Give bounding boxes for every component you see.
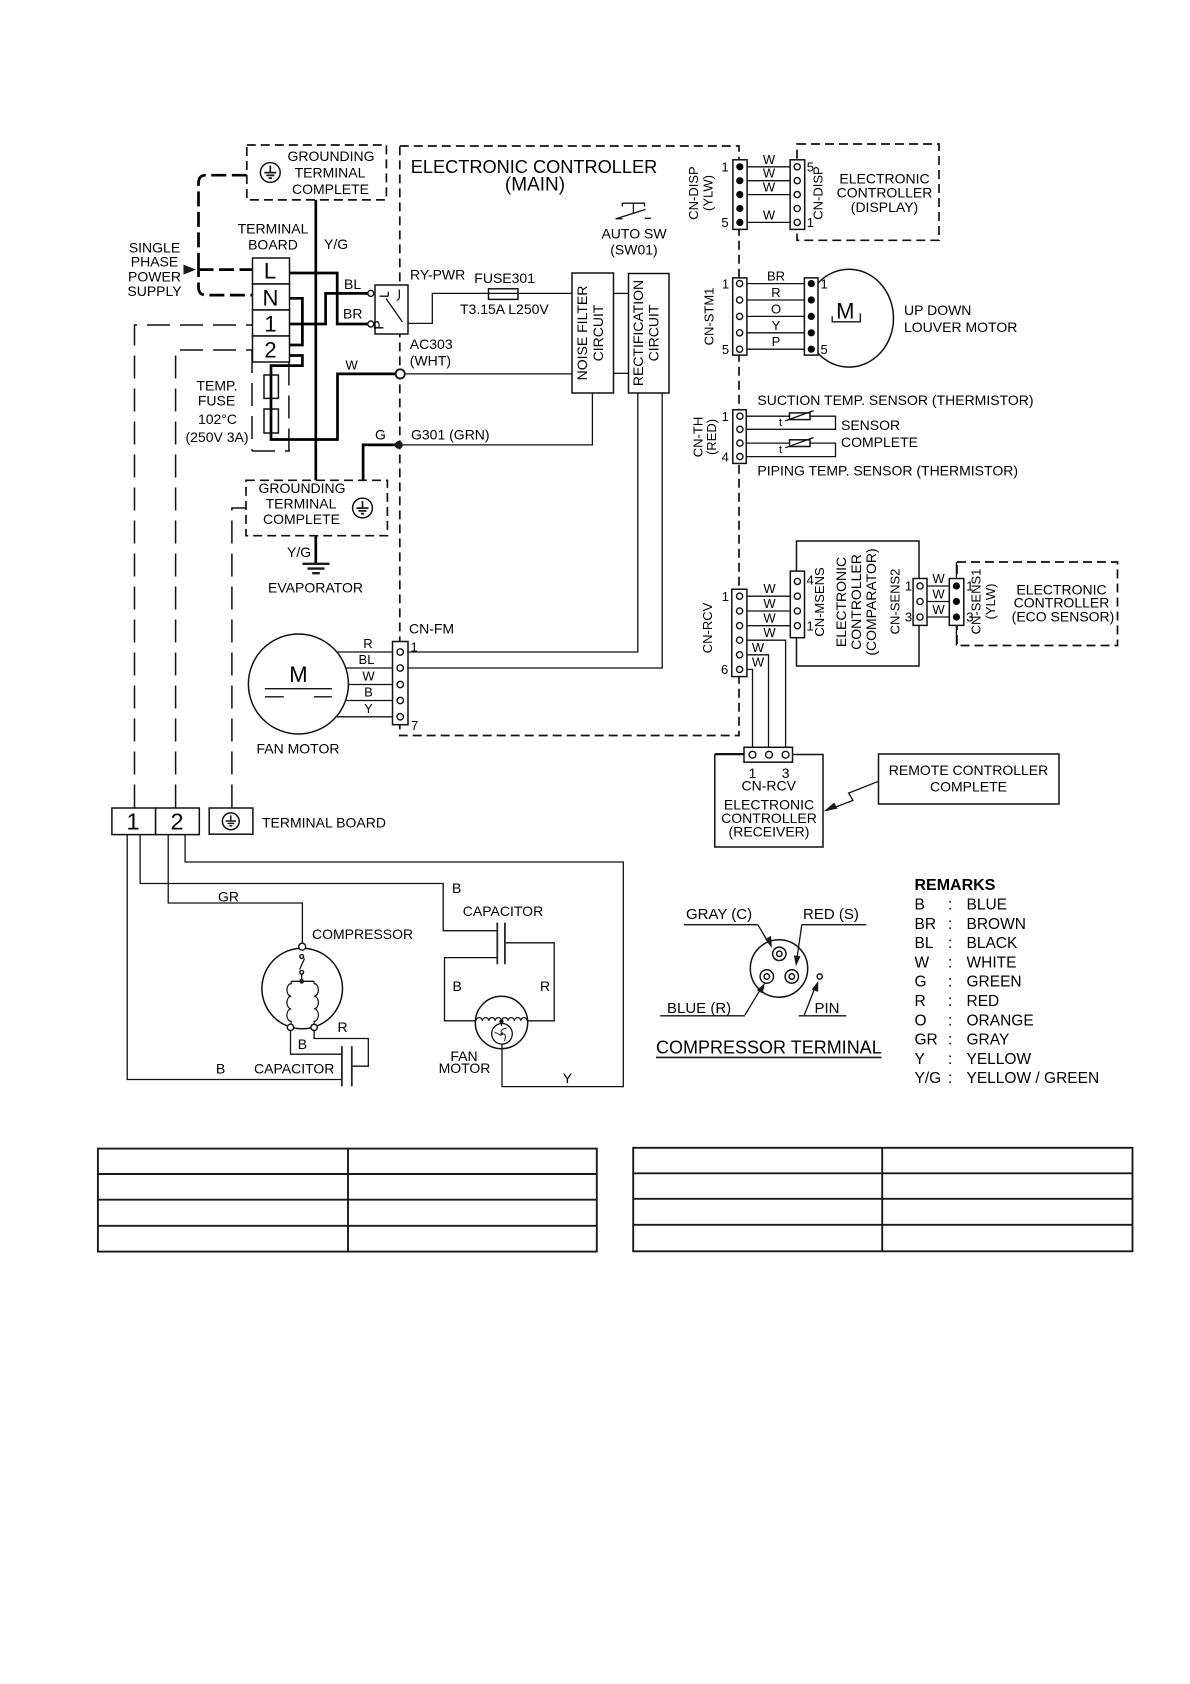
svg-text:GR: GR xyxy=(915,1032,938,1049)
svg-text:ORANGE: ORANGE xyxy=(967,1012,1034,1029)
svg-text:1: 1 xyxy=(264,312,276,337)
svg-text::: : xyxy=(948,916,952,933)
svg-text:(SW01): (SW01) xyxy=(610,242,657,258)
svg-text:1: 1 xyxy=(722,276,729,291)
svg-text:W: W xyxy=(763,166,776,181)
svg-text:1: 1 xyxy=(722,409,729,424)
winding: compressor coils xyxy=(291,980,314,982)
svg-text:REMARKS: REMARKS xyxy=(915,877,996,894)
svg-text:FUSE301: FUSE301 xyxy=(474,270,535,286)
capacitor: fan motor capacitor plates xyxy=(497,923,505,965)
terminal: compressor top terminal xyxy=(299,943,306,950)
svg-text:UP DOWN: UP DOWN xyxy=(904,302,971,318)
wire: fan motor to CN-FM row5 Y xyxy=(337,716,397,718)
wire: compressor R wrap to capacitor xyxy=(314,1031,368,1067)
svg-text:CIRCUIT: CIRCUIT xyxy=(590,304,606,361)
box: grounding terminal complete top dashed xyxy=(247,145,387,200)
svg-text:W: W xyxy=(915,954,930,971)
wire: B lower board1 to compressor capacitor xyxy=(127,835,342,1080)
arrow: blue to R xyxy=(745,990,760,1015)
svg-text:BROWN: BROWN xyxy=(967,916,1026,933)
svg-text:RY-PWR: RY-PWR xyxy=(410,267,465,283)
terminal board: cell L xyxy=(253,258,290,284)
svg-text:t: t xyxy=(779,444,782,456)
svg-text:CN-DISP: CN-DISP xyxy=(686,166,701,219)
svg-text:W: W xyxy=(932,571,945,586)
svg-text:1: 1 xyxy=(126,809,139,835)
terminal board: cell N xyxy=(253,284,290,310)
connector: CN-DISP display side xyxy=(790,160,805,230)
svg-text:N: N xyxy=(263,286,279,311)
svg-text:NOISE FILTER: NOISE FILTER xyxy=(574,286,590,381)
svg-text:W: W xyxy=(763,152,776,167)
svg-text:6: 6 xyxy=(721,662,728,677)
svg-text:BOARD: BOARD xyxy=(248,236,298,252)
svg-text:PIPING TEMP. SENSOR (THERMISTO: PIPING TEMP. SENSOR (THERMISTOR) xyxy=(757,463,1018,479)
node: W white circle AC303 xyxy=(396,369,405,378)
svg-text:(250V 3A): (250V 3A) xyxy=(185,429,248,445)
wire: temp fuse dashed enclosure right xyxy=(252,363,290,452)
svg-text:SENSOR: SENSOR xyxy=(841,417,900,433)
svg-text:RECTIFICATION: RECTIFICATION xyxy=(630,280,646,386)
svg-text:REMOTE CONTROLLER: REMOTE CONTROLLER xyxy=(889,762,1048,778)
wire: Y lower board2 to fan motor xyxy=(185,835,623,1087)
relay: L contact mark xyxy=(380,292,389,296)
ground: mid grounding symbol circle xyxy=(353,498,373,518)
wire: fan motor to CN-FM row1 R xyxy=(337,651,397,653)
svg-text:B: B xyxy=(915,897,925,914)
svg-text::: : xyxy=(948,935,952,952)
svg-text:T3.15A L250V: T3.15A L250V xyxy=(460,301,549,317)
wire: dashed cable terminal2/fuse to lower board 2 xyxy=(176,350,252,808)
svg-text:GROUNDING: GROUNDING xyxy=(287,148,374,164)
relay: pin top xyxy=(368,290,374,296)
terminal: compressor terminal big circle xyxy=(750,940,807,997)
svg-text:L: L xyxy=(264,259,276,284)
svg-text:B: B xyxy=(453,978,462,994)
svg-text:W: W xyxy=(763,180,776,195)
terminal: S terminal double circle xyxy=(785,970,798,983)
svg-text:BL: BL xyxy=(915,935,934,952)
box: comparator outline xyxy=(797,541,920,666)
svg-text:MOTOR: MOTOR xyxy=(439,1060,491,1076)
svg-text:RED: RED xyxy=(967,993,1000,1010)
svg-text:CN-FM: CN-FM xyxy=(409,621,454,637)
svg-text:PIN: PIN xyxy=(815,1000,840,1017)
svg-text:CN-RCV: CN-RCV xyxy=(741,778,796,794)
svg-text:B: B xyxy=(364,685,373,700)
wire: receiver connector stub xyxy=(715,753,745,755)
svg-text:RED (S): RED (S) xyxy=(803,906,859,923)
svg-text:W: W xyxy=(763,625,776,640)
connector: CN-SENS2 xyxy=(913,579,927,626)
svg-text:2: 2 xyxy=(264,338,276,363)
svg-text:B: B xyxy=(452,880,461,896)
svg-text:5: 5 xyxy=(722,342,729,357)
label: red underline xyxy=(802,924,867,926)
label: gray underline xyxy=(684,924,758,926)
wire: temp fuse dashed enclosure left xyxy=(251,350,253,451)
relay: RY-PWR box xyxy=(375,285,408,334)
svg-text:G301 (GRN): G301 (GRN) xyxy=(411,427,490,443)
svg-text:(MAIN): (MAIN) xyxy=(505,175,565,196)
wire: cell2 to temp fuse xyxy=(271,356,395,440)
svg-text:CN-STM1: CN-STM1 xyxy=(702,288,717,346)
label: compressor terminal underline xyxy=(656,1056,882,1058)
svg-text:GREEN: GREEN xyxy=(967,974,1022,991)
svg-text:EVAPORATOR: EVAPORATOR xyxy=(268,580,363,596)
svg-text:(WHT): (WHT) xyxy=(410,353,451,369)
svg-text:GRAY (C): GRAY (C) xyxy=(686,906,752,923)
svg-text:WHITE: WHITE xyxy=(967,954,1017,971)
wire: rectification to CN-FM pin2 xyxy=(403,393,662,668)
wire: BR L-cell to relay xyxy=(290,273,368,324)
svg-text:BLUE: BLUE xyxy=(967,897,1008,914)
svg-text:CN-DISP: CN-DISP xyxy=(811,166,826,219)
svg-text:W: W xyxy=(932,602,945,617)
terminal: compressor bottom left xyxy=(287,1024,293,1030)
svg-text:(COMPARATOR): (COMPARATOR) xyxy=(863,548,879,655)
svg-text:ELECTRONIC: ELECTRONIC xyxy=(833,557,849,647)
svg-text:TERMINAL: TERMINAL xyxy=(295,165,366,181)
wire: B lower board1 to fan capacitor xyxy=(140,835,497,931)
svg-text:B: B xyxy=(298,1036,307,1052)
svg-text:CONTROLLER: CONTROLLER xyxy=(848,554,864,650)
motor: compressor circle xyxy=(262,948,343,1029)
terminal: pin small circle xyxy=(817,974,822,979)
wire: G to noise filter bottom xyxy=(398,393,592,445)
connector: louver motor side xyxy=(804,278,818,355)
svg-text:4: 4 xyxy=(722,450,729,465)
svg-text:M: M xyxy=(289,662,307,687)
svg-text:R: R xyxy=(363,636,372,651)
svg-text:M: M xyxy=(836,299,854,324)
connector: CN-DISP main side xyxy=(733,160,747,230)
wire: dashed cable terminal1 to lower board 1 xyxy=(135,325,253,808)
svg-text:O: O xyxy=(915,1012,927,1029)
svg-text:SUCTION TEMP. SENSOR (THERMIST: SUCTION TEMP. SENSOR (THERMISTOR) xyxy=(757,392,1033,408)
label: blue underline xyxy=(660,1015,745,1017)
terminal: compressor bottom right xyxy=(311,1024,317,1030)
svg-text:CN-SENS1: CN-SENS1 xyxy=(969,569,984,635)
svg-text:BR: BR xyxy=(343,306,362,322)
svg-text:1: 1 xyxy=(411,640,418,655)
fuse: temp fuse element lower xyxy=(264,409,278,433)
connector: CN-MSENS xyxy=(790,571,804,638)
svg-text:W: W xyxy=(763,207,776,222)
svg-text:G: G xyxy=(375,427,386,443)
svg-text:R: R xyxy=(771,285,780,300)
box: grounding terminal complete mid dashed xyxy=(246,480,387,535)
wire: relay out to fuse to noise filter xyxy=(408,293,572,323)
svg-text:(YLW): (YLW) xyxy=(701,175,716,211)
wire: piping sensor loop xyxy=(741,443,836,457)
svg-text:GROUNDING: GROUNDING xyxy=(258,480,345,496)
svg-text:R: R xyxy=(915,993,926,1010)
svg-text:R: R xyxy=(540,978,550,994)
svg-text:W: W xyxy=(763,581,776,596)
wire: CN-RCV pin5 down to receiver pin2 xyxy=(747,655,769,748)
wire: N jumper to cell2 xyxy=(290,298,303,345)
table: right service table xyxy=(633,1148,1132,1252)
svg-text::: : xyxy=(948,1051,952,1068)
connector: CN-RCV xyxy=(732,589,747,676)
wire: fan motor to CN-FM row4 B xyxy=(346,700,397,702)
svg-text:COMPLETE: COMPLETE xyxy=(841,434,918,450)
svg-text:PHASE: PHASE xyxy=(131,254,178,270)
svg-text:Y: Y xyxy=(364,701,373,716)
motor: louver motor circle xyxy=(805,269,894,367)
svg-text:CIRCUIT: CIRCUIT xyxy=(646,304,662,361)
terminal board: lower ground cell xyxy=(209,808,253,834)
svg-text:Y/G: Y/G xyxy=(287,544,311,560)
svg-text:GR: GR xyxy=(218,889,239,905)
terminal board: cell 1 xyxy=(253,310,290,336)
wire: CN-STM1 five rows xyxy=(741,284,811,350)
svg-text:TEMP.: TEMP. xyxy=(197,378,238,394)
wire: noise filter to rectification bottom link xyxy=(614,372,629,374)
svg-text:W: W xyxy=(763,596,776,611)
terminal board: lower cell 1 xyxy=(112,808,156,835)
svg-text:BLACK: BLACK xyxy=(967,935,1018,952)
motor: fan motor power circle xyxy=(475,996,527,1048)
wire: fan motor to CN-FM row3 W xyxy=(348,684,397,686)
terminal: R terminal double circle xyxy=(760,970,773,983)
fuse: FUSE301 body xyxy=(489,289,519,300)
svg-text:O: O xyxy=(771,301,781,316)
ground: lower board ground symbol xyxy=(222,813,239,830)
wire: BL terminal1 to relay xyxy=(290,293,368,324)
table: left service table xyxy=(98,1149,597,1252)
motor: indoor fan motor circle xyxy=(248,634,348,734)
svg-text:SUPPLY: SUPPLY xyxy=(127,283,182,299)
svg-text:CAPACITOR: CAPACITOR xyxy=(463,903,543,919)
box: eco sensor dashed outline xyxy=(957,562,1118,646)
svg-text:G: G xyxy=(915,974,927,991)
svg-text::: : xyxy=(948,1032,952,1049)
wire: CN-RCV pin4 down to receiver pin3 xyxy=(747,640,786,748)
svg-text:7: 7 xyxy=(411,718,418,733)
svg-text:W: W xyxy=(932,587,945,602)
svg-text:B: B xyxy=(216,1061,225,1077)
svg-text:AC303: AC303 xyxy=(410,336,453,352)
connector: CN-TH xyxy=(733,410,747,464)
svg-text:COMPRESSOR TERMINAL: COMPRESSOR TERMINAL xyxy=(656,1038,882,1058)
svg-text:BL: BL xyxy=(359,652,375,667)
wire: rectification to CN-FM pin1 xyxy=(403,393,638,652)
connector: CN-FM xyxy=(393,642,409,725)
wire: suction sensor loop xyxy=(741,416,836,429)
arrow: pin pointer xyxy=(804,989,814,1015)
svg-text:COMPLETE: COMPLETE xyxy=(930,779,1007,795)
thermistor: piping rect + strike xyxy=(790,440,811,447)
svg-text:CAPACITOR: CAPACITOR xyxy=(254,1061,334,1077)
box: display board dashed outline xyxy=(797,144,939,240)
svg-text::: : xyxy=(948,897,952,914)
svg-text:102°C: 102°C xyxy=(198,411,237,427)
wire: CN-RCV pin6 down to receiver pin1 xyxy=(747,669,753,748)
svg-text:BL: BL xyxy=(344,276,361,292)
svg-text:TERMINAL BOARD: TERMINAL BOARD xyxy=(262,815,386,831)
svg-text:(ECO SENSOR): (ECO SENSOR) xyxy=(1012,609,1115,625)
svg-text:BLUE (R): BLUE (R) xyxy=(667,1000,731,1017)
svg-text:P: P xyxy=(772,334,781,349)
connector: receiver 3-pin xyxy=(744,747,793,762)
switch: AUTO SW symbol xyxy=(616,203,651,219)
fan: fan blade symbol xyxy=(492,1024,513,1045)
svg-text:COMPRESSOR: COMPRESSOR xyxy=(312,926,413,942)
wire: CN-RCV to CN-MSENS three rows xyxy=(741,596,797,626)
svg-text:FAN MOTOR: FAN MOTOR xyxy=(257,741,340,757)
svg-text::: : xyxy=(948,1070,952,1087)
wire: dashed ground link to lower board xyxy=(232,508,246,808)
label: fan motor M underline xyxy=(265,689,332,697)
wire: R fan capacitor to motor xyxy=(505,943,554,1021)
ground: evaporator earth symbol xyxy=(303,564,330,573)
svg-text:CN-SENS2: CN-SENS2 xyxy=(888,569,903,635)
svg-text:Y: Y xyxy=(915,1051,925,1068)
svg-text::: : xyxy=(948,993,952,1010)
svg-text:CN-RCV: CN-RCV xyxy=(700,602,715,653)
wire: W circle to noise filter xyxy=(405,373,572,375)
svg-text:TERMINAL: TERMINAL xyxy=(238,221,309,237)
wire: fan capacitor left plate to motor xyxy=(445,958,498,1021)
wire: power supply dashed run L branch xyxy=(199,262,253,295)
relay: hook contact xyxy=(397,290,400,301)
arrow: remote controller zigzag xyxy=(827,781,879,810)
svg-text:1: 1 xyxy=(905,579,912,594)
svg-text:(DISPLAY): (DISPLAY) xyxy=(851,199,918,215)
wire: dashed branch to L cell xyxy=(199,268,253,271)
box: rectification circuit xyxy=(629,274,670,394)
svg-text:(RED): (RED) xyxy=(704,419,719,455)
connector: CN-STM1 xyxy=(733,278,747,355)
box: noise filter circuit xyxy=(572,273,614,393)
svg-text:t: t xyxy=(779,417,782,429)
svg-text:W: W xyxy=(752,654,765,669)
terminal: C terminal double circle xyxy=(773,947,786,960)
svg-text:TERMINAL: TERMINAL xyxy=(266,496,337,512)
box: receiver box xyxy=(715,755,823,848)
svg-text:Y: Y xyxy=(772,318,781,333)
svg-text:(RECEIVER): (RECEIVER) xyxy=(729,824,810,840)
svg-text::: : xyxy=(948,954,952,971)
terminal board: lower cell 2 xyxy=(156,808,200,835)
node: compressor winding junction xyxy=(299,979,304,984)
svg-text:YELLOW: YELLOW xyxy=(967,1051,1032,1068)
svg-text:BR: BR xyxy=(767,269,785,284)
svg-text:5: 5 xyxy=(821,342,828,357)
winding: fan motor winding squiggle xyxy=(476,1018,527,1021)
svg-text:Y/G: Y/G xyxy=(324,236,348,252)
box: remote controller box xyxy=(879,754,1060,804)
ground: top grounding symbol circle xyxy=(260,163,280,183)
label: pin underline xyxy=(799,1015,847,1017)
svg-text:LOUVER MOTOR: LOUVER MOTOR xyxy=(904,319,1017,335)
svg-text:FUSE: FUSE xyxy=(198,393,235,409)
node: power supply arrow xyxy=(184,265,197,275)
wire: compressor B to capacitor xyxy=(291,1031,342,1055)
wire: Y/G bold vertical xyxy=(314,200,317,564)
svg-text:(YLW): (YLW) xyxy=(983,584,998,620)
svg-text:YELLOW / GREEN: YELLOW / GREEN xyxy=(967,1070,1100,1087)
node: fan winding centre tap xyxy=(499,1019,503,1023)
svg-text:AUTO SW: AUTO SW xyxy=(601,226,667,242)
svg-text:R: R xyxy=(338,1019,348,1035)
wire: eco connector stubs xyxy=(955,562,957,646)
relay: pin bottom xyxy=(368,321,374,327)
svg-text::: : xyxy=(948,1012,952,1029)
arrow: red to S xyxy=(797,925,802,957)
arrow: gray to C xyxy=(758,925,769,943)
svg-text:3: 3 xyxy=(905,610,912,625)
svg-text:COMPLETE: COMPLETE xyxy=(263,511,340,527)
box: electronic controller main dashed outline xyxy=(400,146,739,736)
wire: noise filter to rectification top link xyxy=(614,292,629,294)
label: louver M bracket xyxy=(832,313,860,322)
svg-text:GRAY: GRAY xyxy=(967,1032,1010,1049)
svg-text:1: 1 xyxy=(821,276,828,291)
svg-text:Y: Y xyxy=(563,1070,573,1086)
svg-text:1: 1 xyxy=(722,589,729,604)
wire: G junction to grounding box xyxy=(363,445,398,480)
svg-text:W: W xyxy=(346,358,359,373)
svg-text:COMPLETE: COMPLETE xyxy=(292,181,369,197)
wire: CN-SENS2 to CN-SENS1 three rows xyxy=(921,586,956,617)
svg-text:1: 1 xyxy=(721,159,728,174)
fuse: temp fuse element upper xyxy=(264,375,278,398)
terminal board: cell 2 xyxy=(253,336,290,362)
node: G301 junction dot xyxy=(395,441,403,449)
connector: CN-SENS1 xyxy=(949,579,964,626)
thermistor: suction rect + strike xyxy=(790,413,811,420)
svg-text:BR: BR xyxy=(915,916,937,933)
wire: GR lower board2 to compressor xyxy=(168,835,302,943)
svg-text:5: 5 xyxy=(721,215,728,230)
capacitor: compressor capacitor plates xyxy=(342,1046,352,1086)
wire: CN-DISP rows W wires xyxy=(742,167,797,223)
svg-text:W: W xyxy=(763,611,776,626)
svg-text:W: W xyxy=(362,669,375,684)
svg-text:CN-MSENS: CN-MSENS xyxy=(812,567,827,637)
wire: power supply dashed run to L xyxy=(199,175,247,262)
svg-text:2: 2 xyxy=(170,809,183,835)
protector: internal overload symbol xyxy=(300,955,304,959)
wire: fan motor to CN-FM row2 BL xyxy=(346,667,397,669)
relay: armature xyxy=(386,299,403,323)
svg-text:Y/G: Y/G xyxy=(915,1070,942,1087)
svg-text::: : xyxy=(948,974,952,991)
svg-text:W: W xyxy=(752,640,765,655)
